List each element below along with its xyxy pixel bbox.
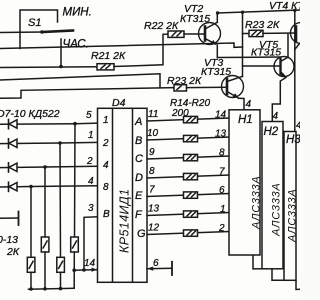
node junction S1 pivot xyxy=(40,30,44,34)
wire VT4 emitter to H3 pin 4 xyxy=(294,10,296,131)
svg-text:1: 1 xyxy=(103,115,109,126)
svg-text:R23 2К: R23 2К xyxy=(167,75,202,87)
node junction bus R11 xyxy=(43,287,47,291)
wire VT3 emitter to H1 pin 4 xyxy=(239,98,245,110)
wire VT5 collector up xyxy=(287,33,289,57)
wire S1 ЧАС contact xyxy=(60,39,62,67)
diode VD9 xyxy=(0,163,45,172)
wire bottom bus xyxy=(29,287,75,290)
wire collector feed vertical xyxy=(242,12,244,76)
svg-text:4: 4 xyxy=(88,176,94,187)
arrowhead pin 14 xyxy=(92,268,98,272)
wire ЧАС bus xyxy=(0,43,243,49)
wire D4 pin 6 supply stub xyxy=(147,267,172,269)
svg-text:14: 14 xyxy=(84,258,96,269)
svg-text:КТ315: КТ315 xyxy=(201,66,231,78)
wire supply rail xyxy=(217,10,300,13)
resistor R13 xyxy=(57,257,65,272)
svg-text:13: 13 xyxy=(148,204,160,215)
node junction rail H3 feed xyxy=(293,9,296,12)
resistor R20 xyxy=(184,230,198,236)
svg-text:13: 13 xyxy=(215,129,227,140)
svg-text:B: B xyxy=(135,135,142,147)
svg-text:Н2: Н2 xyxy=(264,126,279,138)
svg-text:10: 10 xyxy=(147,128,159,139)
wire D4 pin 5 xyxy=(75,122,98,125)
svg-text:A: A xyxy=(134,116,142,128)
svg-text:8: 8 xyxy=(219,148,225,159)
diode VD7 xyxy=(0,120,75,129)
svg-text:В: В xyxy=(103,209,110,220)
svg-text:2: 2 xyxy=(86,156,93,167)
svg-text:2К: 2К xyxy=(6,246,20,258)
svg-text:G: G xyxy=(137,228,146,240)
svg-text:ЧАС.: ЧАС. xyxy=(63,39,89,51)
svg-text:14: 14 xyxy=(215,110,227,121)
svg-text:D7-10 КД522: D7-10 КД522 xyxy=(0,108,60,120)
wire to R23 upper xyxy=(243,33,250,35)
svg-text:0-13: 0-13 xyxy=(0,234,18,246)
transistor VT4 xyxy=(291,23,312,50)
resistor R16 xyxy=(184,154,198,160)
wire VD10 column xyxy=(30,187,32,258)
svg-text:6: 6 xyxy=(153,258,159,269)
wire segment f row xyxy=(147,213,229,216)
svg-text:КТ315: КТ315 xyxy=(251,47,281,59)
node junction pin3 column xyxy=(82,268,86,272)
svg-text:C: C xyxy=(135,153,143,165)
wire D4 pin 2 xyxy=(45,165,98,168)
wire segment b row xyxy=(147,137,229,140)
svg-text:2: 2 xyxy=(218,223,225,234)
resistor R19 xyxy=(184,211,198,217)
resistor R22 xyxy=(168,31,184,37)
wire D4 pin 3 xyxy=(84,217,98,270)
node junction pin14 branch xyxy=(72,268,76,272)
svg-text:4: 4 xyxy=(296,120,300,131)
wire D4 pin 4 xyxy=(31,185,98,188)
svg-text:D4: D4 xyxy=(112,97,126,109)
svg-text:4: 4 xyxy=(273,111,279,122)
svg-text:11: 11 xyxy=(148,109,158,120)
display H2 box xyxy=(262,122,283,269)
svg-text:8: 8 xyxy=(149,166,155,177)
resistor R21 xyxy=(97,64,114,70)
node junction rail-collector xyxy=(216,11,219,14)
node junction ЧАС contact xyxy=(59,65,63,69)
switch S1 frame xyxy=(20,10,58,49)
wire VT3 base bus xyxy=(0,88,174,99)
node junction bus R13 xyxy=(59,287,63,291)
svg-text:D: D xyxy=(135,172,143,184)
wire H1 bottom step xyxy=(253,255,262,269)
resistor R23 lower xyxy=(174,85,187,91)
wire D4 pin 1 xyxy=(60,141,98,144)
node junction diode VD8 xyxy=(58,141,62,145)
svg-text:S1: S1 xyxy=(28,17,41,29)
wire R22 to VT2 base xyxy=(184,33,204,35)
wire segment g row xyxy=(147,232,229,235)
wire D4 pin 14 xyxy=(74,269,97,272)
node junction diode VD9 xyxy=(43,165,47,169)
node junction rail collector feed xyxy=(241,11,244,14)
wire R21 to R22 jog xyxy=(114,34,168,66)
svg-text:1: 1 xyxy=(220,204,226,215)
wire R12 to bus xyxy=(73,252,75,288)
wire R11 to bus xyxy=(44,252,46,289)
svg-text:АЛС333А: АЛС333А xyxy=(250,176,262,230)
wire segment a row xyxy=(147,118,229,121)
resistor R17 xyxy=(184,173,198,179)
node junction diode VD7 xyxy=(73,122,77,126)
wire R23 to VT4 base xyxy=(263,32,295,34)
svg-text:7: 7 xyxy=(149,185,155,196)
IC D4 box xyxy=(98,108,148,282)
wire minute bus A xyxy=(0,74,160,88)
wire VT2 collector to rail xyxy=(216,13,218,22)
wire segment d row xyxy=(147,175,229,178)
wire lower base link xyxy=(243,65,281,67)
arrowhead pin 6 xyxy=(147,267,153,271)
terminal bar xyxy=(18,212,20,226)
svg-text:МИН.: МИН. xyxy=(63,7,92,19)
wire VT5 emitter to H2 pin 4 xyxy=(272,78,286,122)
svg-text:12: 12 xyxy=(148,223,160,234)
svg-text:АЛС333А: АЛС333А xyxy=(287,189,299,243)
svg-text:АЛС333А: АЛС333А xyxy=(271,183,283,237)
svg-text:R23 2К: R23 2К xyxy=(245,19,280,31)
svg-text:R22 2К: R22 2К xyxy=(144,20,179,32)
wire VT2 emitter to VT5 base xyxy=(217,56,280,59)
display H3 box xyxy=(284,132,296,281)
diode VD10 xyxy=(0,182,31,191)
wire VD7 column xyxy=(74,124,77,237)
wire H3 bottom step xyxy=(296,280,300,289)
svg-text:6: 6 xyxy=(219,185,225,196)
display H1 box xyxy=(229,110,260,255)
wire R13 to bus xyxy=(60,272,62,288)
wire VD9 column xyxy=(44,167,46,237)
terminal bar pin 6 xyxy=(171,262,173,275)
svg-text:1: 1 xyxy=(88,130,94,141)
node junction diode VD10 xyxy=(29,185,33,189)
wire VT2 emitter drop xyxy=(216,45,218,58)
resistor R15 xyxy=(184,135,198,141)
transistor VT3 xyxy=(222,76,244,99)
resistor R23 upper xyxy=(249,30,263,36)
svg-text:КР514ИД1: КР514ИД1 xyxy=(118,189,132,253)
wire R10 to bus xyxy=(30,272,32,289)
resistor R10 xyxy=(27,257,35,272)
svg-text:5: 5 xyxy=(86,110,92,121)
resistor R11 xyxy=(41,237,49,252)
transistor VT5 xyxy=(274,57,294,78)
transistor VT2 xyxy=(199,22,221,45)
wire R23 to VT3 base xyxy=(187,86,228,88)
svg-text:КТ315: КТ315 xyxy=(180,13,210,25)
svg-text:7: 7 xyxy=(219,167,225,178)
resistor R18 xyxy=(184,192,198,198)
wire segment c row xyxy=(147,156,229,159)
svg-text:8: 8 xyxy=(103,182,109,193)
node junction bus R10 xyxy=(29,287,33,291)
wire terminal stub xyxy=(0,217,18,219)
svg-text:R21 2К: R21 2К xyxy=(91,50,126,62)
switch S1 lever xyxy=(42,31,73,33)
svg-text:9: 9 xyxy=(149,147,155,158)
svg-text:3: 3 xyxy=(88,203,94,214)
wire hour-select bus xyxy=(0,66,97,69)
diode VD8 xyxy=(0,139,60,148)
svg-text:4: 4 xyxy=(103,160,109,171)
resistor R12 xyxy=(71,237,79,252)
wire H2 bottom step xyxy=(272,269,284,281)
wire МИН bus xyxy=(0,31,42,34)
svg-text:4: 4 xyxy=(246,99,252,110)
svg-text:Н3: Н3 xyxy=(286,134,300,146)
resistor R14 xyxy=(184,116,198,122)
wire segment e row xyxy=(147,194,229,197)
svg-text:E: E xyxy=(135,190,143,202)
svg-text:2: 2 xyxy=(102,138,109,149)
svg-text:Н1: Н1 xyxy=(238,114,253,126)
wire VD8 column xyxy=(59,143,62,257)
